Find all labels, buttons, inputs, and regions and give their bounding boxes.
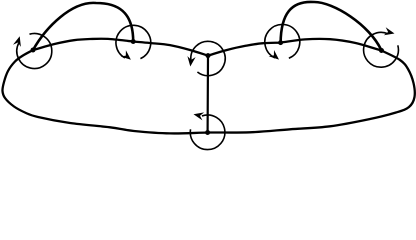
rotation circle at V5 (clockwise) bbox=[364, 32, 399, 67]
wire edge V3-V4 top bbox=[208, 43, 281, 56]
arrowhead on circle V4 bbox=[269, 50, 279, 60]
wire edge V1-V2 top bbox=[33, 39, 133, 50]
wire chord V3-V6 vertical bbox=[207, 56, 210, 133]
node V6 dot bbox=[205, 130, 210, 135]
rotation circle at V6 (counterclockwise) bbox=[190, 115, 225, 150]
wire chord loop V4-V5 bbox=[281, 2, 382, 51]
node V5 dot bbox=[379, 48, 384, 53]
node V1 dot bbox=[31, 48, 36, 53]
arrowhead on circle V1 bbox=[13, 36, 21, 47]
node V2 dot bbox=[131, 39, 136, 44]
arrowhead on circle V5 bbox=[384, 27, 395, 35]
wire chord loop V1-V2 bbox=[33, 3, 133, 50]
graph diagram: closed curve with 6 vertices, chords and rotation circles bbox=[0, 0, 416, 151]
wire edge V2-V3 top bbox=[133, 42, 208, 56]
arrowhead on circle V2 bbox=[121, 50, 131, 60]
rotation circle at V1 (clockwise) bbox=[17, 34, 52, 69]
arrowhead on circle V3 bbox=[187, 56, 195, 66]
rotation circle at V3 (counterclockwise) bbox=[191, 41, 225, 75]
wire edge V6-V1 left/bottom bbox=[2, 50, 207, 133]
node V4 dot bbox=[278, 40, 283, 45]
rotation circle at V2 (counterclockwise) bbox=[116, 25, 151, 58]
arrowhead on circle V6 bbox=[194, 112, 205, 120]
wire edge V5-V6 right/bottom bbox=[208, 51, 415, 133]
wire edge V4-V5 top bbox=[281, 39, 382, 51]
node V3 dot bbox=[206, 53, 211, 58]
rotation circle at V4 (counterclockwise) bbox=[265, 25, 300, 59]
